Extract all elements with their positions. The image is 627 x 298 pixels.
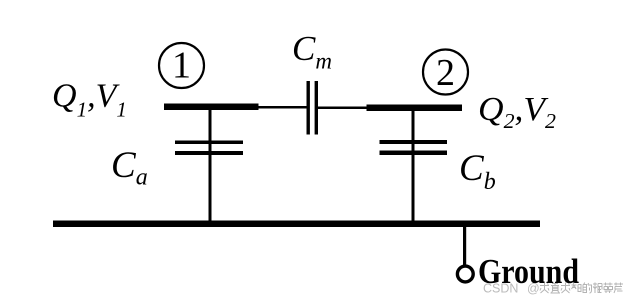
capacitor Ca bottom plate — [175, 151, 243, 155]
wire Cm to bar2 — [318, 107, 368, 110]
wire bar1 to Cm — [256, 106, 307, 109]
svg-text:Cb: Cb — [459, 148, 496, 195]
node 2 circle — [423, 50, 468, 95]
capacitor Cm right plate — [315, 81, 318, 135]
ground bus wire — [53, 221, 540, 228]
ground stub wire — [463, 227, 466, 266]
capacitor Ca top plate — [175, 141, 243, 145]
capacitor Cb top plate — [380, 140, 448, 144]
svg-text:Q2,V2: Q2,V2 — [478, 91, 557, 133]
watermark chinese glyphs — [540, 283, 623, 294]
svg-text:Q1,V1: Q1,V1 — [52, 78, 127, 122]
wire node2 down to ground — [412, 111, 415, 221]
svg-text:2: 2 — [436, 52, 455, 94]
svg-text:1: 1 — [172, 45, 191, 87]
svg-text:@: @ — [527, 282, 540, 296]
label Q1,V1 — [52, 78, 127, 122]
node 1 circle — [159, 43, 204, 88]
watermark CSDN text — [483, 282, 540, 296]
ground terminal circle — [457, 266, 473, 282]
capacitor Cm left plate — [307, 81, 310, 135]
wire node1 down to ground — [209, 110, 212, 221]
svg-text:CSDN: CSDN — [483, 282, 518, 296]
label Q2,V2 — [478, 91, 557, 133]
capacitor Cb bottom plate — [380, 151, 448, 156]
svg-text:Cm: Cm — [292, 29, 332, 73]
label Cb — [459, 148, 496, 195]
svg-text:Ca: Ca — [111, 145, 148, 191]
node 2 plate bar — [367, 105, 463, 112]
node 1 plate bar — [164, 104, 259, 111]
label Cm — [292, 29, 332, 73]
label Ca — [111, 145, 148, 191]
